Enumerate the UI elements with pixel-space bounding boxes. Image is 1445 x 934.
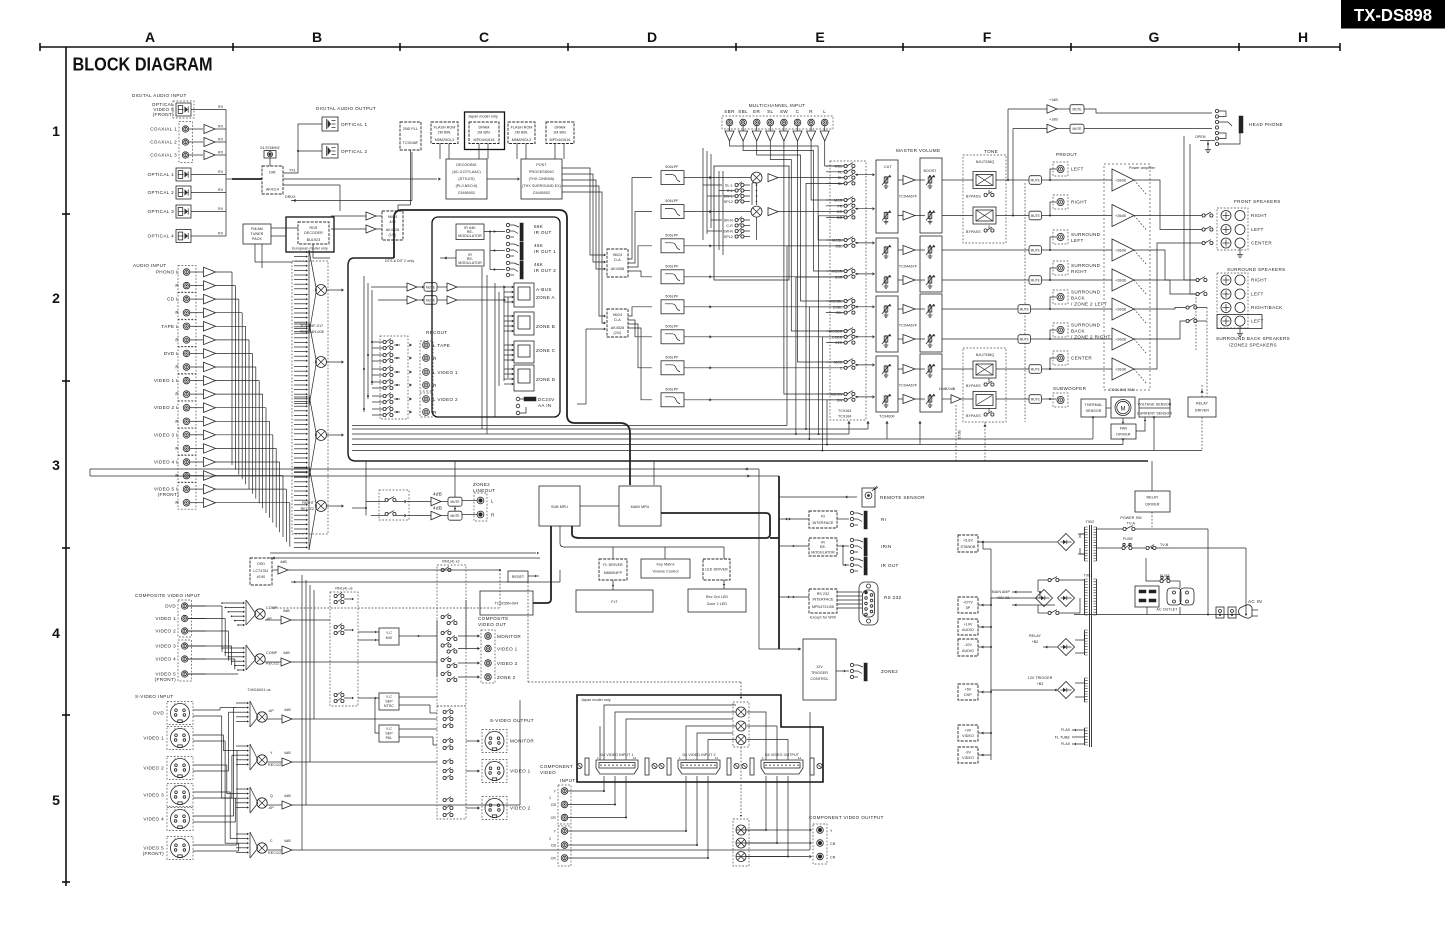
svg-text:ER: ER [753, 109, 760, 114]
RCA component input CR [561, 814, 568, 821]
block 12V TRIGGER CONTROL [803, 639, 836, 700]
svg-text:S-VIDEO OUTPUT: S-VIDEO OUTPUT [490, 718, 534, 723]
svg-text:TV-A: TV-A [1127, 522, 1136, 526]
speaker terminal front CENTER [1221, 238, 1231, 248]
block THERMAL SENSOR [1081, 399, 1106, 417]
svg-text:VIDEO 5 L: VIDEO 5 L [154, 487, 179, 492]
svg-text:LEFT: LEFT [1071, 167, 1084, 172]
svg-text:L VIDEO 1: L VIDEO 1 [433, 370, 458, 375]
svg-text:RIGHT: RIGHT [1251, 213, 1267, 218]
multichannel amp SBR [729, 126, 731, 131]
wire DIR to decoder DSP [283, 178, 437, 180]
svg-text:DRAM: DRAM [479, 126, 490, 130]
svg-text:VIDEO 2: VIDEO 2 [143, 766, 164, 771]
main AC wire [1074, 614, 1240, 616]
svg-text:R: R [175, 365, 179, 370]
mute block ch4 [1029, 276, 1042, 285]
wire volume to mute ch2 [942, 215, 973, 217]
component output wires [736, 776, 766, 830]
svg-text:24.576MHZ: 24.576MHZ [260, 146, 280, 150]
multichannel amp SBL [742, 126, 744, 131]
zone buffer box ZONE B [514, 312, 534, 335]
downmix internal rails [718, 171, 720, 250]
block FL DRIVER M66004FP [599, 559, 627, 580]
svg-text:AA IN: AA IN [538, 403, 552, 408]
svg-text:R: R [175, 473, 179, 478]
svg-text:MIX: MIX [386, 636, 393, 640]
digital input bus join [225, 110, 227, 237]
preout jack CENTER [1050, 358, 1056, 369]
svg-text:COAXIAL 3: COAXIAL 3 [150, 153, 177, 158]
headphone feed verticals [1007, 109, 1009, 180]
svg-text:OPTICAL 1: OPTICAL 1 [341, 122, 368, 127]
svg-text:MODULATOR: MODULATOR [811, 551, 835, 555]
svg-text:2: 2 [52, 290, 60, 306]
cooling fan motor [1111, 397, 1135, 418]
downmix amp L [768, 174, 778, 182]
svg-text:MUTE: MUTE [1031, 178, 1040, 182]
svg-text:SSL: SSL [835, 244, 842, 248]
svg-text:RIGHT: RIGHT [1071, 269, 1087, 274]
svg-text:DRIVER: DRIVER [1145, 503, 1159, 507]
svg-text:+B2: +B2 [1032, 640, 1039, 644]
RCA component output CB [817, 840, 824, 847]
input buffer amp 16 [204, 471, 216, 481]
surround speakers ground [1239, 326, 1241, 331]
speaker terminal surround LEFT [1221, 316, 1231, 326]
s-video selector fan 2 [236, 745, 247, 747]
s-video out switch [443, 724, 446, 727]
svg-text:RELAY: RELAY [1029, 634, 1042, 638]
svg-text:LEFT: LEFT [1251, 292, 1264, 297]
speaker terminal front LEFT [1221, 225, 1231, 235]
svg-text:MUTE: MUTE [1031, 214, 1040, 218]
svg-text:PACK: PACK [252, 237, 262, 241]
svg-text:BYPASS: BYPASS [966, 414, 981, 418]
svg-text:TC9460F: TC9460F [879, 415, 895, 419]
input buffer amp 13 [204, 430, 216, 440]
AC inlet connectors [1216, 607, 1224, 618]
svg-text:COMP: COMP [266, 606, 278, 610]
svg-text:Y: Y [184, 757, 186, 761]
svg-text:TC9459F-017: TC9459F-017 [300, 324, 323, 328]
svg-text:BYPASS: BYPASS [966, 195, 981, 199]
svg-text:MAIN AMP: MAIN AMP [992, 590, 1011, 594]
block RI INTERFACE [809, 511, 837, 528]
boost attenuator ch1 [929, 176, 931, 184]
mute block ch1 [1029, 176, 1042, 185]
svg-text:4dB: 4dB [280, 560, 287, 564]
svg-text:C-R: C-R [726, 224, 733, 228]
s-video out switch [443, 806, 446, 809]
svg-text:MCL: MCL [835, 165, 843, 169]
svg-text:DECODING: DECODING [456, 163, 476, 167]
relay control dashed verticals [1206, 308, 1208, 398]
svg-text:COMPONENT: COMPONENT [540, 764, 573, 769]
svg-text:Y: Y [184, 727, 186, 731]
svg-text:-10V: -10V [964, 643, 972, 647]
RCA zone2 R [477, 511, 484, 518]
svg-text:REC/22: REC/22 [268, 763, 281, 767]
zone buffer box ZONE D [514, 365, 534, 391]
block Y-C MIX [379, 628, 399, 645]
block Rec Out LED Zone 2 LED [688, 589, 746, 612]
block RS 232 INTERFACE MPD4721GB [809, 589, 837, 613]
input buffer amp 15 [204, 457, 216, 467]
recout switch dashed box [380, 336, 408, 419]
input buffer amp 12 [204, 417, 216, 427]
block FAN DRIVER [1111, 424, 1136, 439]
DAC 96/24 D-A AK4358 [607, 249, 628, 277]
boost attenuator ch3 [929, 246, 931, 254]
svg-text:RX: RX [218, 188, 224, 192]
D4 connector output [761, 760, 803, 774]
output switch bank dashed RN1(4) x2 [437, 565, 466, 706]
dashed box audio pair VIDEO 3 L [178, 428, 196, 455]
svg-text:REMOTE SENSOR: REMOTE SENSOR [880, 495, 925, 500]
dashed box component mix lower [733, 819, 749, 866]
block RELAY DRIVER power [1135, 491, 1170, 512]
boost attenuator ch5 [929, 305, 931, 313]
svg-text:REC/22: REC/22 [268, 851, 281, 855]
svg-text:/ ZONE 2 LEFT: / ZONE 2 LEFT [1071, 302, 1107, 307]
component sum nodes lower [736, 825, 746, 835]
svg-text:PROCESSING: PROCESSING [529, 170, 554, 174]
svg-text:OPTICAL 2: OPTICAL 2 [341, 149, 368, 154]
svg-text:VIDEO 1: VIDEO 1 [143, 736, 164, 741]
svg-text:D: D [647, 29, 657, 45]
svg-text:SEL3: SEL3 [957, 430, 961, 439]
svg-text:SUB MPU: SUB MPU [551, 505, 568, 509]
wire mute to amp ch5 [1031, 308, 1113, 310]
component in-box wiring [604, 705, 736, 760]
bus selector thick vertical [348, 258, 1148, 461]
connector COAXIAL 1 [182, 126, 188, 132]
headphone ground [1207, 143, 1209, 145]
bridge rectifier relay [1058, 639, 1075, 656]
recout switches L VIDEO 2 [383, 394, 386, 397]
svg-text:RN1(4) us: RN1(4) us [335, 587, 352, 591]
svg-text:FR: FR [838, 204, 843, 208]
RCA component input CB [561, 801, 568, 808]
border frame header line [40, 46, 1340, 48]
s-video collector verticals [301, 575, 303, 850]
svg-text:A/D: A/D [389, 220, 396, 224]
box European model only [286, 217, 334, 252]
svg-text:L: L [823, 109, 826, 114]
svg-text:Power amplifier: Power amplifier [1129, 166, 1156, 170]
svg-text:CUT: CUT [884, 165, 892, 169]
svg-text:MPD441616: MPD441616 [550, 138, 571, 142]
svg-text:INTERFACE: INTERFACE [812, 521, 834, 525]
svg-text:TC9164: TC9164 [838, 415, 851, 419]
svg-text:BYPASS: BYPASS [966, 384, 981, 388]
svg-text:AUDIO: AUDIO [962, 649, 974, 653]
IC 2ND PLL TC9246F [400, 122, 421, 150]
video switch pair [334, 693, 337, 696]
svg-text:SURROUND: SURROUND [1071, 263, 1101, 268]
svg-text:SURROUND BACK SPEAKERS: SURROUND BACK SPEAKERS [1216, 336, 1290, 341]
multichannel routing staircase [825, 141, 844, 166]
volume amp ch5 [903, 305, 915, 314]
svg-text:VIDEO: VIDEO [962, 734, 974, 738]
optical output connector OPTICAL 1 [322, 117, 338, 131]
s-video selector node 1 [257, 712, 267, 722]
svg-text:+DTV: +DTV [963, 601, 973, 605]
S-video connector VIDEO 5 [167, 837, 193, 860]
RCA jack VIDEO 2 L [183, 404, 190, 411]
svg-text:BOOST: BOOST [923, 169, 937, 173]
volume attenuator ch5 [885, 305, 887, 313]
svg-text:SL-L: SL-L [725, 184, 733, 188]
bus control double lines [90, 468, 759, 470]
svg-text:DR: DR [837, 210, 843, 214]
svg-text:S-VIDEO INPUT: S-VIDEO INPUT [135, 694, 174, 699]
svg-text:FM/AM: FM/AM [251, 227, 263, 231]
RCA composite out VIDEO 2 [458, 662, 478, 664]
svg-text:4dB: 4dB [284, 839, 291, 843]
svg-text:MUTE: MUTE [1072, 127, 1081, 131]
svg-text:R: R [809, 109, 813, 114]
RCA jack CD L [183, 296, 190, 303]
jack 46K IR OUT 2 [506, 261, 509, 264]
RCA jack VIDEO 5 L R [183, 499, 190, 506]
bus DSP data thick [402, 210, 630, 485]
svg-text:4dB: 4dB [284, 708, 291, 712]
headphone mute L [1070, 105, 1084, 114]
svg-text:SURROUND SPEAKERS: SURROUND SPEAKERS [1227, 267, 1286, 272]
bus MAIN MPU thick loop [572, 513, 770, 538]
svg-text:DVD: DVD [165, 604, 176, 609]
selector sum node 4 [316, 501, 327, 512]
svg-text:SURROUND: SURROUND [1071, 232, 1101, 237]
svg-text:COMP: COMP [266, 651, 278, 655]
transformer relay winding [1084, 630, 1086, 655]
IC DRAM 2 MPD4416165 [546, 122, 574, 144]
svg-text:DSBR: DSBR [832, 335, 843, 339]
wire standby to +5.6V [978, 541, 1057, 543]
mute block ch5 [1018, 305, 1031, 314]
downmix sum node R [751, 206, 762, 217]
box Japan model only DRAM [465, 112, 505, 150]
svg-text:MCR: MCR [834, 199, 843, 203]
headphone wires to jack [1084, 109, 1212, 113]
speaker switch front CENTER [1202, 241, 1205, 244]
RCA jack VIDEO 4 L [183, 459, 190, 466]
bridge rectifier standby [1058, 534, 1075, 551]
wire bottom bus left [89, 469, 91, 476]
connector COAXIAL 2 [182, 139, 188, 145]
svg-text:RX: RX [218, 151, 224, 155]
svg-text:COMPOSITE: COMPOSITE [478, 616, 509, 621]
svg-text:SURROUND: SURROUND [1071, 323, 1101, 328]
svg-text:Volume Control: Volume Control [653, 570, 679, 574]
multichannel amp L [824, 126, 826, 131]
svg-text:506LPF: 506LPF [665, 199, 679, 203]
svg-text:ZONE2: ZONE2 [881, 669, 898, 674]
RCA recout R [423, 409, 430, 416]
transformer trigger winding [1084, 678, 1086, 702]
svg-text:Y: Y [499, 730, 501, 734]
buffer amp COAXIAL 2 [204, 138, 215, 147]
svg-text:14: 14 [715, 756, 719, 760]
RCA component output CR [817, 853, 824, 860]
IC MAIN MPU [619, 486, 661, 526]
svg-text:VIDEO 3 L: VIDEO 3 L [154, 432, 179, 437]
svg-text:2M BIN.: 2M BIN. [438, 131, 452, 135]
RCA composite input VIDEO 2 [182, 628, 188, 634]
svg-text:Rec Out LED: Rec Out LED [706, 595, 729, 599]
wires tuner to selector [271, 227, 298, 229]
svg-text:MUTE: MUTE [1072, 108, 1081, 112]
svg-text:AK4358: AK4358 [611, 267, 624, 271]
FL tube winding [1084, 728, 1086, 745]
wire volume to mute ch3 [942, 249, 1029, 251]
RCA jack PHONO L [183, 269, 190, 276]
svg-text:R: R [175, 446, 179, 451]
svg-text:OPTICAL 1: OPTICAL 1 [148, 172, 175, 177]
svg-text:INTERFACE: INTERFACE [812, 598, 834, 602]
big box zone distribution [432, 217, 560, 417]
buffer amp COAXIAL 1 [204, 125, 215, 134]
input buffer amp 14 [204, 444, 216, 454]
S-video output connector VIDEO 2 [466, 807, 478, 809]
DIT amps and mutes row 1 [407, 283, 417, 291]
block LED DRIVER [703, 559, 730, 580]
wire mute to amp ch8 [1042, 398, 1057, 400]
left frame line [65, 47, 67, 886]
jack 56K IR OUT [506, 223, 509, 226]
selector sum node 2 [316, 357, 327, 368]
svg-text:(2/2): (2/2) [614, 331, 622, 335]
svg-text:C5490002: C5490002 [533, 191, 550, 195]
svg-text:5P: 5P [966, 606, 971, 610]
front speakers dashed box [1217, 208, 1248, 250]
svg-text:Except for W00: Except for W00 [810, 616, 836, 620]
tone dashed box upper NJU7338Q [963, 155, 1006, 243]
svg-text:VIDEO: VIDEO [540, 770, 556, 775]
ADC 96/24 A/D AK4528 (1/2) [382, 211, 403, 240]
DSP POST PROCESSING THX CINEMA THX SURROUND EX C5490002 [521, 159, 562, 199]
s-video out switch [443, 798, 446, 801]
selector sum node 1 [316, 285, 327, 296]
svg-text:VIDEO 2: VIDEO 2 [497, 661, 518, 666]
input buffer amp 8 [204, 362, 216, 372]
wire volume to mute ch5 [942, 308, 1018, 310]
input buffer amp 11 [204, 403, 216, 413]
svg-text:MCSBR: MCSBR [829, 330, 843, 334]
svg-text:TV-B: TV-B [1160, 543, 1169, 547]
downmix matrix box [714, 166, 789, 280]
volume attenuator ch8 [885, 395, 887, 403]
svg-text:SL: SL [767, 109, 773, 114]
RCA jack DVD L [183, 350, 190, 357]
dashed box audio pair VIDEO 5 L [178, 483, 196, 510]
speaker terminal front RIGHT [1221, 211, 1231, 221]
power amp ch3 +26dB [1112, 239, 1134, 261]
block +5.6V STANDBY [958, 535, 978, 552]
svg-text:2: 2 [549, 837, 551, 841]
wire mute to amp ch4 [1042, 279, 1113, 281]
subwoofer filter block [973, 392, 996, 409]
composite out switches [441, 568, 444, 571]
svg-text:46K: 46K [534, 262, 544, 267]
svg-text:AK4114: AK4114 [266, 188, 279, 192]
selector fan 2 [294, 323, 306, 325]
speaker switch surround RIGHT [1196, 278, 1199, 281]
svg-text:1: 1 [52, 123, 60, 139]
svg-text:+1dB: +1dB [1049, 118, 1058, 122]
dashed box component outputs [813, 824, 827, 864]
svg-text:96/24: 96/24 [613, 253, 623, 257]
downmix sum node L [751, 172, 762, 183]
svg-text:-6P: -6P [268, 709, 274, 713]
svg-text:506LPF: 506LPF [665, 294, 679, 298]
boost attenuator ch2 [929, 212, 931, 220]
speaker wire surround back right [1134, 308, 1186, 310]
left area verticals to bus [481, 267, 483, 429]
svg-text:FAN: FAN [1120, 427, 1128, 431]
svg-text:MUTE: MUTE [1031, 248, 1040, 252]
svg-text:SPL2: SPL2 [724, 200, 733, 204]
svg-text:IR OUT: IR OUT [534, 230, 552, 235]
zone2 lineout mute L [448, 497, 462, 506]
block +10V AUDIO [958, 619, 978, 635]
svg-text:DRUX: DRUX [285, 195, 296, 199]
power amp ch5 +26dB [1112, 298, 1134, 320]
svg-text:+26dB: +26dB [1115, 279, 1126, 283]
svg-text:BU1923: BU1923 [307, 238, 321, 242]
svg-text:56K: 56K [534, 224, 544, 229]
volume attenuator ch7 [885, 365, 887, 373]
svg-text:R: R [433, 356, 437, 361]
AD input amps [366, 212, 376, 220]
recout switches R [383, 407, 386, 410]
svg-text:Key Matrix: Key Matrix [657, 563, 675, 567]
svg-text:(AC-3,DTS,AAC): (AC-3,DTS,AAC) [452, 170, 481, 174]
svg-text:Y: Y [184, 784, 186, 788]
svg-text:DVD: DVD [153, 711, 164, 716]
svg-text:R: R [433, 383, 437, 388]
svg-text:RELAY: RELAY [1196, 402, 1209, 406]
bus control ports vertical [778, 476, 780, 649]
svg-text:12V: 12V [816, 665, 823, 669]
svg-text:SURROUND: SURROUND [1071, 290, 1101, 295]
svg-text:LINEOUT: LINEOUT [473, 488, 495, 493]
AC plug [1239, 605, 1253, 618]
bus sub mpu to display rail [560, 526, 724, 547]
RCA recout R [423, 382, 430, 389]
svg-text:/ ZONE 2 RIGHT: / ZONE 2 RIGHT [1071, 335, 1111, 340]
svg-text:T902: T902 [1086, 520, 1095, 524]
svg-text:NJU7338Q: NJU7338Q [976, 160, 995, 164]
block RDS DECODER BU1923 [298, 222, 329, 244]
svg-text:SENSOR: SENSOR [1086, 409, 1102, 413]
svg-text:SR-R: SR-R [724, 219, 733, 223]
svg-text:IR OUT 2: IR OUT 2 [534, 268, 556, 273]
svg-text:VIDEO 4: VIDEO 4 [155, 657, 176, 662]
svg-text:DE-: DE- [820, 545, 827, 549]
svg-text:R: R [175, 392, 179, 397]
bus stubs up to volume blocks [848, 421, 850, 434]
long control bus lines [352, 428, 868, 430]
svg-text:DRAM: DRAM [555, 126, 566, 130]
svg-text:(FRONT): (FRONT) [155, 677, 176, 682]
svg-text:H: H [1298, 29, 1308, 45]
svg-text:Y: Y [499, 797, 501, 801]
RCA component input CB [561, 842, 568, 849]
preout jack RIGHT [1050, 202, 1056, 216]
